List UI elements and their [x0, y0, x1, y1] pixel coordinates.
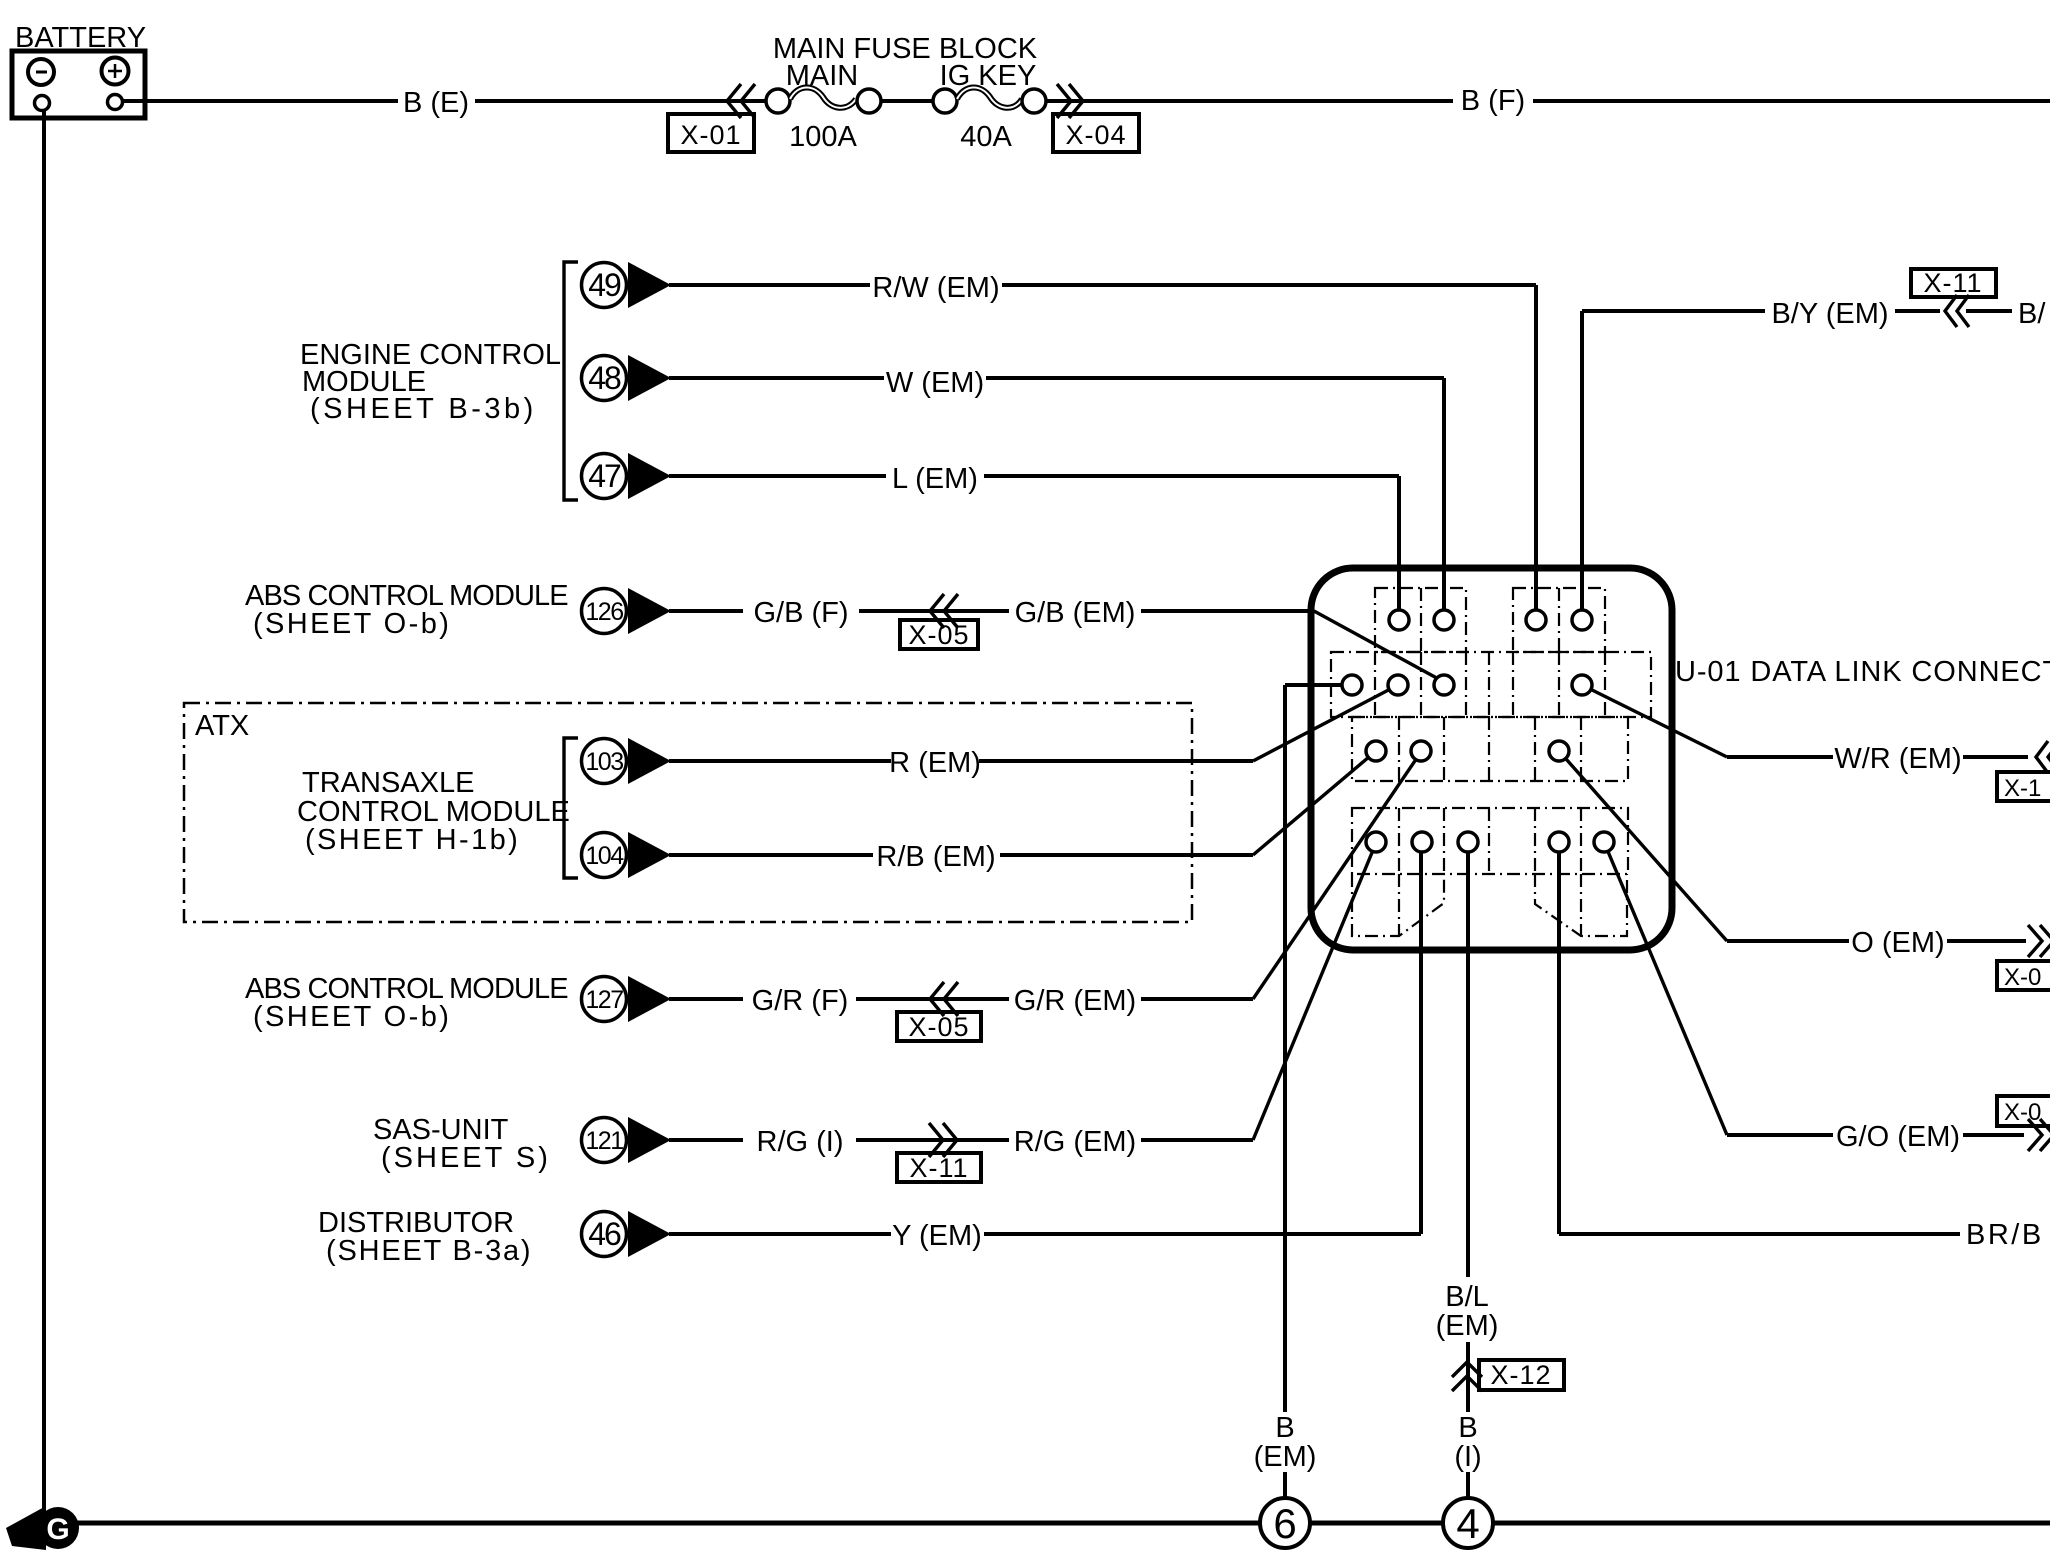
label W/R (EM)	[1834, 743, 1961, 775]
label G/B (EM)	[1015, 597, 1136, 629]
ECM pin 47	[582, 453, 672, 499]
wire G/R (F)	[669, 997, 1009, 1001]
svg-text:G/R (F): G/R (F)	[752, 985, 849, 1017]
wire G/O (EM) right	[1604, 842, 2024, 1135]
wire G/R (EM)	[1141, 752, 1421, 999]
bottom ground bus wire	[76, 1521, 2050, 1526]
svg-text:G/R (EM): G/R (EM)	[1014, 985, 1136, 1017]
wire B/L to B(I) joint 4	[1466, 852, 1470, 1498]
label B/Y (EM)	[1771, 298, 1888, 330]
connector pins row 2	[1342, 675, 1592, 695]
svg-text:G/O (EM): G/O (EM)	[1836, 1121, 1960, 1153]
svg-text:X-05: X-05	[908, 620, 969, 650]
svg-text:X-05: X-05	[908, 1012, 969, 1042]
svg-text:X-12: X-12	[1490, 1360, 1551, 1390]
wire B(E) battery to fuse block	[123, 99, 766, 103]
svg-text:G/B (F): G/B (F)	[753, 597, 848, 629]
connector pins row 3	[1366, 741, 1569, 761]
svg-text:B: B	[1458, 1412, 1477, 1444]
svg-text:103: 103	[585, 748, 623, 776]
connector chevron X-0 right edge mid	[1997, 925, 2050, 991]
svg-text:121: 121	[585, 1127, 623, 1155]
connector pins row 4	[1366, 832, 1614, 852]
connector cavity dashes band A	[1375, 588, 1605, 652]
svg-text:B: B	[1275, 1412, 1294, 1444]
U-01 data link connector box	[1311, 568, 1672, 950]
TCM bracket	[564, 738, 578, 878]
svg-text:X-0: X-0	[2004, 1099, 2041, 1126]
svg-text:B/L: B/L	[1445, 1281, 1489, 1313]
wire W/R (EM) right	[1582, 685, 2028, 757]
label B (I) bottom	[1454, 1412, 1481, 1473]
svg-text:X-01: X-01	[680, 120, 741, 150]
wire L (EM)	[669, 476, 1399, 611]
svg-text:B (E): B (E)	[403, 87, 469, 119]
transaxle control module label	[297, 767, 570, 856]
wire Y (EM)	[669, 852, 1421, 1234]
svg-text:(SHEET B-3b): (SHEET B-3b)	[310, 393, 537, 425]
wire battery negative to ground	[42, 111, 46, 1509]
svg-text:(SHEET S): (SHEET S)	[381, 1142, 551, 1174]
ECM pin 48	[582, 355, 672, 401]
wire B(F) to right edge	[1046, 99, 2050, 103]
wire R/G (EM)	[1141, 843, 1376, 1140]
svg-text:X-11: X-11	[909, 1153, 968, 1183]
wire R/G (I)	[669, 1138, 1009, 1142]
svg-text:(SHEET B-3a): (SHEET B-3a)	[326, 1235, 532, 1267]
svg-text:47: 47	[588, 458, 621, 494]
label W (EM)	[886, 367, 984, 399]
wire B (EM) from pin to joint 6	[1285, 685, 1342, 1498]
svg-text:G: G	[46, 1513, 69, 1546]
svg-text:127: 127	[585, 986, 623, 1014]
svg-text:O (EM): O (EM)	[1851, 927, 1944, 959]
wire G/B (EM)	[1141, 611, 1444, 682]
connector chevron X-1 right edge	[1997, 741, 2050, 802]
wire W (EM)	[669, 378, 1444, 611]
svg-text:BR/B: BR/B	[1966, 1219, 2044, 1251]
svg-text:6: 6	[1273, 1500, 1296, 1547]
joint 6	[1260, 1498, 1310, 1548]
connector chevron X-11 lower	[897, 1123, 981, 1183]
wire O (EM) right	[1559, 751, 2026, 941]
ECM bracket	[564, 262, 578, 500]
sas unit label	[373, 1114, 551, 1174]
TCM pin 103	[582, 738, 672, 784]
svg-text:(SHEET H-1b): (SHEET H-1b)	[305, 824, 520, 856]
svg-text:104: 104	[585, 842, 624, 870]
svg-text:B/Y (EM): B/Y (EM)	[1771, 298, 1888, 330]
svg-text:X-11: X-11	[1923, 268, 1982, 298]
svg-text:W (EM): W (EM)	[886, 367, 984, 399]
label R/G (I)	[757, 1126, 844, 1158]
svg-text:R (EM): R (EM)	[889, 747, 981, 779]
connector chevron X-05	[900, 594, 978, 650]
svg-text:W/R (EM): W/R (EM)	[1834, 743, 1961, 775]
main fuse block label	[773, 33, 1038, 92]
label Y (EM)	[892, 1220, 982, 1252]
svg-text:IG KEY: IG KEY	[940, 60, 1037, 92]
label R/G (EM)	[1014, 1126, 1136, 1158]
svg-text:49: 49	[588, 267, 621, 303]
svg-text:X-1: X-1	[2004, 775, 2041, 802]
label B (EM) bottom	[1254, 1412, 1317, 1473]
svg-text:MAIN: MAIN	[786, 60, 859, 92]
svg-text:126: 126	[585, 598, 623, 626]
connector cavity dashes band B	[1331, 652, 1651, 717]
svg-text:R/W (EM): R/W (EM)	[872, 272, 999, 304]
label B/Y cut at edge	[2018, 298, 2046, 330]
wire B/Y (EM) top right	[1582, 311, 2012, 611]
ABS pin 126	[582, 588, 672, 634]
connector chevron X-0 right edge low	[1997, 1096, 2050, 1151]
ground G	[6, 1506, 79, 1550]
svg-text:X-0: X-0	[2004, 964, 2041, 991]
svg-text:R/G (I): R/G (I)	[757, 1126, 844, 1158]
distributor label	[318, 1207, 532, 1267]
connector chevron X-04	[1053, 84, 1139, 152]
DIST pin 46	[582, 1211, 672, 1257]
svg-text:B/: B/	[2018, 298, 2046, 330]
connector chevron X-11 top	[1911, 268, 1996, 327]
ABS pin 127	[582, 976, 672, 1022]
battery B1	[12, 22, 146, 118]
svg-text:46: 46	[588, 1216, 621, 1252]
label BR/B	[1966, 1219, 2044, 1251]
svg-text:(EM): (EM)	[1254, 1441, 1317, 1473]
wire between fuses	[881, 99, 933, 103]
abs control module label 1	[245, 580, 568, 640]
svg-text:G/B (EM): G/B (EM)	[1015, 597, 1136, 629]
fuse IG KEY 40A	[933, 87, 1046, 153]
svg-text:X-04: X-04	[1065, 120, 1126, 150]
engine control module label	[300, 339, 561, 425]
svg-text:48: 48	[588, 360, 621, 396]
label G/O (EM)	[1836, 1121, 1960, 1153]
wire BR/B right	[1559, 852, 1960, 1234]
label U-01 DATA LINK CONNECTOR	[1675, 656, 2050, 688]
svg-text:(I): (I)	[1454, 1441, 1481, 1473]
svg-text:(EM): (EM)	[1436, 1310, 1499, 1342]
svg-text:(SHEET O-b): (SHEET O-b)	[253, 608, 451, 640]
label G/R (F)	[752, 985, 849, 1017]
svg-text:BATTERY: BATTERY	[15, 22, 146, 54]
ATX dashed box	[184, 703, 1192, 922]
svg-text:L (EM): L (EM)	[892, 463, 978, 495]
wire R/B (EM)	[669, 751, 1376, 855]
label R/B (EM)	[876, 841, 995, 873]
svg-text:TRANSAXLE: TRANSAXLE	[302, 767, 474, 799]
svg-text:B (F): B (F)	[1461, 85, 1525, 117]
label R (EM)	[889, 747, 981, 779]
svg-text:R/B (EM): R/B (EM)	[876, 841, 995, 873]
connector cavity lower right extension	[1535, 874, 1627, 936]
TCM pin 104	[582, 832, 672, 878]
connector chevron X-05 lower	[897, 982, 981, 1042]
connector cavity lower left extension	[1352, 874, 1444, 936]
label R/W (EM)	[872, 272, 999, 304]
connector cavity dashes band C	[1352, 717, 1628, 781]
label B/L (EM)	[1436, 1281, 1499, 1342]
label B(E)	[403, 87, 469, 119]
svg-text:U-01 DATA LINK CONNECTOR: U-01 DATA LINK CONNECTOR	[1675, 656, 2050, 688]
fuse MAIN 100A	[766, 87, 881, 153]
svg-text:40A: 40A	[960, 121, 1012, 153]
wire R (EM)	[669, 685, 1398, 761]
label G/R (EM)	[1014, 985, 1136, 1017]
label O (EM)	[1851, 927, 1944, 959]
svg-text:ATX: ATX	[195, 710, 249, 742]
connector chevron X-12	[1452, 1360, 1564, 1391]
abs control module label 2	[245, 973, 568, 1033]
ECM pin 49	[582, 262, 672, 308]
label G/B (F)	[753, 597, 848, 629]
label B(F)	[1461, 85, 1525, 117]
SAS pin 121	[582, 1117, 672, 1163]
svg-text:R/G (EM): R/G (EM)	[1014, 1126, 1136, 1158]
label L (EM)	[892, 463, 978, 495]
svg-text:Y (EM): Y (EM)	[892, 1220, 982, 1252]
wire G/B (F)	[669, 609, 1009, 613]
wire R/W (EM)	[669, 285, 1536, 611]
connector chevron X-01	[668, 84, 755, 152]
connector pins row 1	[1389, 610, 1592, 630]
connector cavity dashes band D	[1352, 808, 1628, 874]
svg-text:100A: 100A	[789, 121, 857, 153]
svg-text:(SHEET O-b): (SHEET O-b)	[253, 1001, 451, 1033]
joint 4	[1443, 1498, 1493, 1548]
svg-text:4: 4	[1456, 1500, 1479, 1547]
